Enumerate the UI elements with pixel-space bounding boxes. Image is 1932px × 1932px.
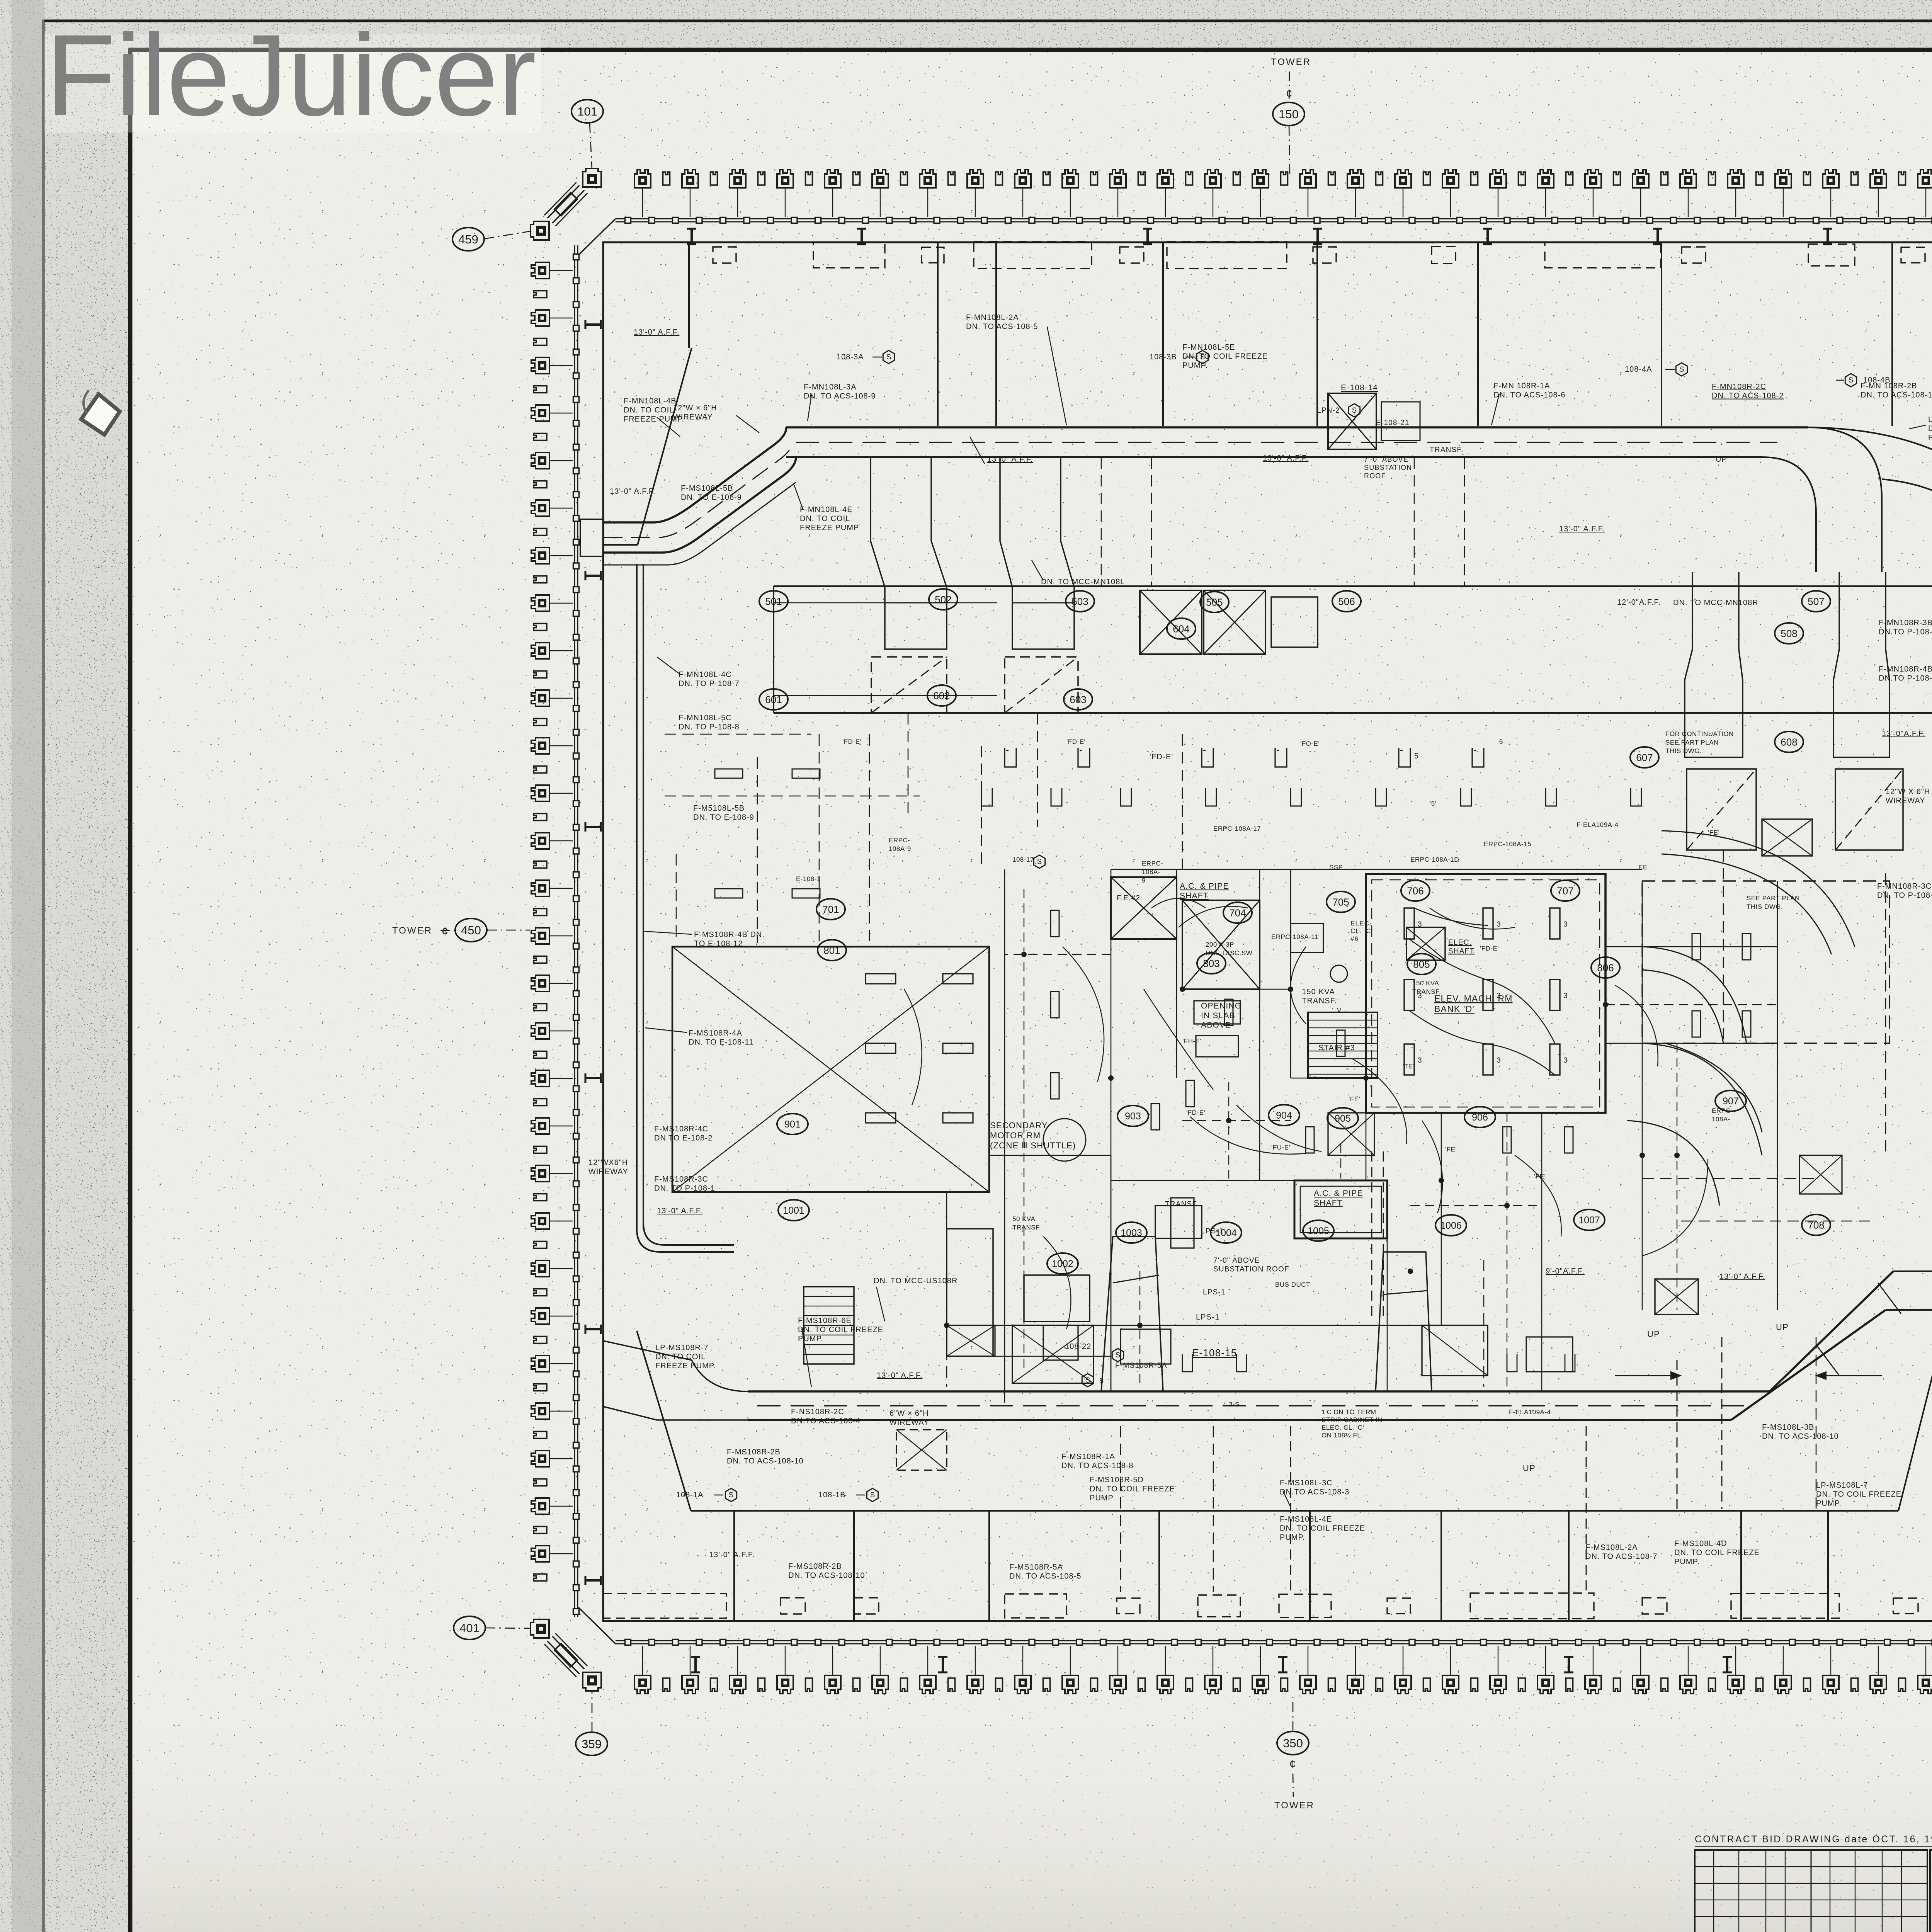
equipment ovals row 700 800 (816, 899, 845, 920)
svg-text:F-MN108R-4BDN.TO P-108-6: F-MN108R-4BDN.TO P-108-6 (1879, 665, 1932, 683)
svg-text:905: 905 (1335, 1113, 1351, 1124)
top fixture dashed row (713, 247, 736, 263)
grid bubble 401 (485, 1628, 530, 1628)
right zone content (1662, 831, 1855, 947)
corner chamfer top-left (552, 190, 584, 223)
funnel duct A below band (871, 457, 947, 649)
svg-text:1003: 1003 (1121, 1228, 1142, 1238)
bottom extra X boxes (896, 1430, 947, 1470)
svg-text:BUS DUCT: BUS DUCT (1275, 1281, 1310, 1288)
svg-text:E-108-14: E-108-14 (1341, 383, 1378, 392)
right core arcs (1642, 947, 1747, 1043)
svg-text:'5': '5' (1430, 800, 1436, 807)
core dashed conduit web (1024, 889, 1024, 1372)
svg-text:603: 603 (1070, 694, 1086, 705)
svg-text:13'-0" A.F.F.: 13'-0" A.F.F. (1559, 525, 1605, 533)
svg-text:'FE': 'FE' (1349, 1095, 1360, 1103)
secondary diagonal wireway line (603, 482, 796, 565)
callout F-MN108L-3A (808, 395, 811, 421)
svg-text:S: S (729, 1491, 734, 1499)
elevator room arcs (1409, 939, 1555, 1043)
svg-text:108-17: 108-17 (1012, 856, 1034, 863)
svg-text:13'-0" A.F.F.: 13'-0" A.F.F. (1719, 1272, 1765, 1281)
svg-text:ERPC-: ERPC- (1142, 860, 1163, 867)
funnel duct C right (1685, 572, 1743, 757)
svg-text:FileJuicer: FileJuicer (46, 10, 536, 140)
svg-text:13'-0"A.F.F.: 13'-0"A.F.F. (1882, 730, 1925, 738)
svg-text:ERPC-108A-17: ERPC-108A-17 (1213, 825, 1261, 832)
interior mechanical floor boundary wall (603, 242, 1932, 1621)
diagonal wall top-left (638, 348, 692, 545)
bottom band diagonal duct to right wall (1770, 1271, 1893, 1391)
core small fixture rects extra (1051, 910, 1059, 937)
svg-text:12"W X 6"HWIREWAY: 12"W X 6"HWIREWAY (1886, 787, 1930, 805)
svg-text:12"WX6"HWIREWAY: 12"WX6"HWIREWAY (588, 1158, 628, 1176)
svg-text:906: 906 (1472, 1112, 1488, 1123)
svg-text:13'-0" A.F.F.: 13'-0" A.F.F. (610, 487, 655, 496)
svg-text:ELEC. CL. 'C': ELEC. CL. 'C' (1321, 1424, 1364, 1431)
diagonal wall bottom-right (1898, 1313, 1932, 1511)
svg-text:13'-0" A.F.F.: 13'-0" A.F.F. (657, 1207, 702, 1215)
svg-text:'FO-E': 'FO-E' (1300, 740, 1320, 747)
svg-text:UP: UP (1647, 1329, 1660, 1339)
approved seal box (1930, 1850, 1932, 1932)
perimeter columns top row (634, 170, 1932, 188)
svg-text:TOWER: TOWER (1274, 1800, 1315, 1811)
svg-text:1002: 1002 (1052, 1259, 1073, 1269)
svg-text:3: 3 (1497, 920, 1501, 929)
equipment ovals row 500 (759, 591, 788, 612)
stair 3 hatched (1308, 1012, 1378, 1078)
svg-text:505: 505 (1206, 596, 1223, 608)
svg-text:'FD-E': 'FD-E' (1150, 753, 1173, 761)
corner column top-left B (531, 221, 549, 240)
secondary wall bottom band (691, 1510, 1898, 1512)
spandrel top with junction squares (616, 218, 1932, 219)
svg-text:1004: 1004 (1215, 1228, 1237, 1238)
svg-text:F-MN108L-5CDN. TO P-108-8: F-MN108L-5CDN. TO P-108-8 (679, 714, 740, 731)
svg-text:708: 708 (1808, 1219, 1824, 1231)
svg-text:SSP: SSP (1329, 864, 1343, 871)
svg-text:608: 608 (1781, 736, 1797, 748)
svg-text:200 A-3P: 200 A-3P (1206, 941, 1234, 948)
callout F-MN108L-4B (657, 417, 680, 437)
svg-text:502: 502 (935, 594, 951, 605)
svg-text:705: 705 (1332, 896, 1349, 908)
column spandrel connectors top (643, 188, 1926, 217)
callout F-MN108L-2A (1047, 327, 1066, 425)
svg-text:507: 507 (1808, 595, 1824, 607)
svg-text:13'-0" A.F.F.: 13'-0" A.F.F. (987, 455, 1033, 464)
FE shaft box with cross (1111, 877, 1177, 939)
svg-text:F-MN108L-4EDN. TO COILFREEZE P: F-MN108L-4EDN. TO COILFREEZE PUMP (800, 505, 859, 532)
svg-text:ERPC-108A-11: ERPC-108A-11 (1271, 933, 1318, 940)
svg-text:'FE': 'FE' (1534, 1173, 1546, 1180)
svg-text:3: 3 (1563, 992, 1568, 1000)
svg-text:TOWER: TOWER (1271, 57, 1311, 67)
svg-text:506: 506 (1338, 595, 1355, 607)
svg-text:9'-0"A.F.F.: 9'-0"A.F.F. (1546, 1267, 1585, 1276)
svg-text:TRANSF.: TRANSF. (1412, 988, 1441, 995)
grid bubble 459 (484, 231, 531, 239)
funnel duct B below band (1000, 457, 1074, 649)
svg-text:F.E.#2: F.E.#2 (1117, 894, 1140, 902)
svg-text:¢: ¢ (1286, 87, 1293, 100)
bottom zone dashes (946, 1260, 947, 1387)
svg-text:359: 359 (582, 1737, 602, 1751)
svg-text:DN. TO MCC-US108R: DN. TO MCC-US108R (874, 1277, 957, 1285)
svg-text:50 KVA: 50 KVA (1012, 1215, 1036, 1223)
svg-text:607: 607 (1636, 752, 1653, 763)
svg-text:5: 5 (1414, 752, 1419, 760)
core partition mesh verticals (1004, 869, 1005, 1403)
svg-text:706: 706 (1407, 885, 1423, 896)
svg-text:F-MS108R-5A: F-MS108R-5A (1115, 1362, 1167, 1370)
svg-text:TRANSF.: TRANSF. (1430, 446, 1464, 454)
svg-text:108A-9: 108A-9 (889, 845, 911, 852)
interior ledge top-left (603, 544, 638, 546)
callout 12"W × 6"H (736, 415, 759, 433)
spandrel diagonal top-left (595, 219, 616, 239)
svg-text:DN. TO MCC-MN108L: DN. TO MCC-MN108L (1041, 578, 1125, 586)
left edge dark strip (12, 0, 44, 1932)
tapered risers from bottom band (1101, 1236, 1163, 1391)
callout F-MN 108R-1A (1492, 394, 1499, 425)
callout DN. TO MCC-MN108L (1032, 560, 1043, 580)
bus duct dashed vertical (1371, 1151, 1372, 1321)
svg-text:ERPC-108A-15: ERPC-108A-15 (1484, 840, 1531, 848)
svg-text:THIS DWG.: THIS DWG. (1665, 747, 1702, 755)
grid bubble 101 with centerline (590, 123, 592, 169)
structural gridline ticks left (585, 320, 601, 329)
callout 13'-0" A.F.F. (970, 437, 985, 464)
svg-text:'FH-E': 'FH-E' (1182, 1037, 1201, 1045)
svg-text:508: 508 (1781, 628, 1797, 639)
svg-text:LPN-2: LPN-2 (1317, 406, 1340, 415)
revisions table (1695, 1850, 1927, 1932)
diagonal wall bottom-left (637, 1331, 691, 1511)
svg-text:704: 704 (1229, 907, 1246, 918)
spandrel diagonal bottom-left (578, 1607, 616, 1644)
svg-text:3: 3 (1563, 920, 1568, 929)
bottom wireway band horizontal (748, 1390, 1770, 1393)
svg-text:S: S (1849, 376, 1854, 384)
svg-text:13'-0" A.F.F.: 13'-0" A.F.F. (709, 1551, 755, 1559)
svg-text:3-S: 3-S (1229, 1401, 1240, 1408)
svg-text:LP-MN108R-7DN. TO COIL FREEZEP: LP-MN108R-7DN. TO COIL FREEZEPUMP (1928, 415, 1932, 442)
svg-text:CONTRACT BID DRAWING dat: CONTRACT BID DRAWING date OCT. 16, 1967 (1695, 1834, 1932, 1845)
svg-text:108-4A: 108-4A (1625, 365, 1652, 374)
svg-text:108-3B: 108-3B (1150, 353, 1177, 361)
main wireway band top horizontal (786, 426, 1808, 429)
svg-text:602: 602 (933, 690, 950, 701)
svg-text:S: S (886, 353, 891, 361)
ink blotch left margin (81, 394, 120, 435)
svg-text:EE: EE (1638, 864, 1648, 871)
upper middle fixture row 2 (981, 788, 992, 806)
callout F-MS108R-4A (645, 1028, 687, 1032)
callout F-MS108L-3C (1283, 1491, 1291, 1507)
upper middle dashed conduit runs (908, 713, 909, 819)
perimeter columns left column (531, 262, 549, 1581)
svg-text:501: 501 (765, 595, 782, 607)
svg-text:UP: UP (1776, 1322, 1789, 1332)
left vertical wireway 12x6 (636, 564, 638, 1229)
core partition mesh horizontals (1111, 869, 1642, 870)
svg-text:3: 3 (1418, 920, 1422, 929)
svg-text:S: S (1116, 1351, 1121, 1359)
svg-text:ELEC.SHAFT: ELEC.SHAFT (1448, 939, 1475, 955)
svg-text:FOR CONTINUATION: FOR CONTINUATION (1665, 730, 1734, 738)
svg-text:108-1A: 108-1A (676, 1491, 704, 1499)
svg-text:UP: UP (1716, 455, 1727, 464)
svg-text:108A-: 108A- (1142, 868, 1160, 876)
duct cross ties bottom diagonal (1816, 1345, 1839, 1376)
svg-text:S: S (1679, 366, 1684, 374)
svg-text:ERPC-: ERPC- (889, 837, 910, 844)
wireway band right elbow down (1808, 427, 1882, 572)
margin texture top (130, 0, 1932, 50)
svg-text:3: 3 (1497, 1056, 1501, 1065)
wireway elbow to right wall (1808, 427, 1932, 572)
svg-text:801: 801 (823, 944, 840, 956)
svg-text:'FE': 'FE' (1445, 1146, 1457, 1153)
svg-text:LPS-1: LPS-1 (1196, 1313, 1220, 1321)
svg-text:108A-: 108A- (1712, 1116, 1730, 1123)
svg-text:SEE PART PLAN: SEE PART PLAN (1747, 895, 1800, 902)
svg-text:3: 3 (1418, 1056, 1422, 1065)
svg-text:F-ELA109A-4: F-ELA109A-4 (1509, 1408, 1551, 1416)
elevator room fixtures (1404, 908, 1414, 939)
corner column top-left A (583, 168, 601, 187)
corner chamfer bottom-left (552, 1636, 584, 1669)
callout F-MN108L-4C (657, 657, 680, 674)
second elevator bank room right (1642, 881, 1889, 1043)
svg-text:13'-0" A.F.F.: 13'-0" A.F.F. (1263, 454, 1308, 463)
svg-text:1006: 1006 (1440, 1220, 1462, 1231)
margin texture left (0, 0, 130, 1932)
svg-text:904: 904 (1276, 1110, 1292, 1121)
core small circles (1043, 1119, 1086, 1161)
svg-text:108-22: 108-22 (1065, 1342, 1091, 1351)
upper band inner lines (774, 602, 997, 604)
callout F-MS108R-4B DN. (643, 931, 692, 934)
crosshatched AHU boxes mid band (1140, 590, 1202, 654)
structural gridline ticks top (687, 229, 696, 244)
svg-text:1001: 1001 (783, 1205, 804, 1216)
svg-text:'FU-E': 'FU-E' (1271, 1144, 1290, 1151)
svg-text:350: 350 (1283, 1736, 1303, 1750)
FD-E fixture row mid (1005, 748, 1016, 767)
funnel duct B dashed fixture box (1005, 657, 1078, 713)
svg-text:13'-0" A.F.F.: 13'-0" A.F.F. (634, 328, 679, 337)
svg-text:101: 101 (577, 105, 597, 118)
secondary motor room (672, 947, 989, 1192)
callout LP-MN108R-7 (1909, 425, 1926, 429)
svg-text:'FD-E': 'FD-E' (842, 738, 861, 745)
bottom gradient shading (0, 0, 0, 0)
filejuicer watermark background (44, 34, 541, 133)
wireway elbow to left wall (603, 427, 786, 522)
spandrel left with junction squares (574, 245, 575, 1617)
svg-text:F-MS108R-4CDN TO E-108-2: F-MS108R-4CDN TO E-108-2 (654, 1125, 713, 1143)
svg-text:TRANSF.: TRANSF. (1165, 1200, 1199, 1208)
corner column bottom-left A (583, 1672, 601, 1691)
svg-text:S: S (1352, 406, 1357, 415)
svg-text:TRANSF.: TRANSF. (1012, 1224, 1041, 1231)
core scattered conduit arcs (1144, 989, 1213, 1090)
core junction dots (1021, 952, 1027, 957)
svg-text:ERPC-108A-1D: ERPC-108A-1D (1410, 856, 1459, 863)
bottom fixture dashed row (603, 1594, 726, 1618)
callout DN. TO MCC-US108R (876, 1287, 885, 1321)
svg-text:108-3A: 108-3A (837, 353, 864, 361)
svg-text:¢: ¢ (1289, 1758, 1296, 1770)
svg-text:STRIP CABINET IN: STRIP CABINET IN (1321, 1416, 1383, 1423)
svg-text:F-ELA109A-4: F-ELA109A-4 (1577, 821, 1619, 828)
callout F-MS108R-6E (802, 1328, 811, 1387)
stair hatch bottom-left of plan (804, 1287, 854, 1364)
bottom band partition walls (733, 1511, 735, 1621)
svg-text:707: 707 (1557, 885, 1573, 896)
svg-text:604: 604 (1173, 623, 1189, 634)
svg-text:'FD-E': 'FD-E' (1480, 945, 1499, 952)
svg-text:DN. TO MCC-MN108R: DN. TO MCC-MN108R (1673, 599, 1759, 607)
svg-text:F-MN108R-3CDN. TO P-108-3: F-MN108R-3CDN. TO P-108-3 (1877, 882, 1932, 900)
svg-text:ON 108½ FL.: ON 108½ FL. (1321, 1432, 1363, 1439)
svg-text:601: 601 (765, 694, 782, 705)
svg-text:901: 901 (784, 1119, 801, 1130)
funnel duct A dashed fixture box (871, 657, 947, 713)
svg-text:6"W × 6"HWIREWAY: 6"W × 6"HWIREWAY (889, 1409, 929, 1427)
motor room fixtures (866, 974, 896, 984)
svg-text:UP: UP (1523, 1463, 1536, 1473)
bottom wireway elbow to left wall (603, 1341, 748, 1391)
svg-text:806: 806 (1597, 962, 1614, 973)
svg-text:701: 701 (822, 903, 839, 915)
svg-text:¢: ¢ (442, 925, 449, 938)
wall junction box for wireway (580, 519, 604, 556)
svg-text:S: S (870, 1491, 875, 1499)
left zone dashed runs (665, 734, 811, 735)
svg-text:TOWER: TOWER (392, 925, 432, 936)
spandrel bottom with junction squares (616, 1640, 1932, 1641)
bottom middle transformer yard (1012, 1325, 1094, 1383)
right edge dark shading (0, 0, 0, 0)
svg-text:F-MS108R-3CDN. TO P-108-1: F-MS108R-3CDN. TO P-108-1 (654, 1175, 715, 1193)
column spandrel connectors left (550, 270, 573, 1554)
structural gridline ticks bottom (691, 1657, 700, 1672)
svg-text:THIS DWG.: THIS DWG. (1747, 903, 1783, 910)
svg-text:450: 450 (461, 923, 481, 937)
svg-text:F-MN108L-4CDN. TO P-108-7: F-MN108L-4CDN. TO P-108-7 (679, 670, 740, 688)
core extra arcs (1063, 947, 1104, 1082)
core X-crossed small shafts (1328, 1113, 1374, 1155)
top band partition walls (688, 242, 690, 348)
svg-text:E-108-15: E-108-15 (1192, 1347, 1237, 1359)
callout F-MN108L-4E (794, 485, 803, 509)
svg-text:1'C DN TO TERM: 1'C DN TO TERM (1321, 1408, 1376, 1416)
grid bubble 350 tower centerline bottom (1293, 1697, 1294, 1731)
svg-text:150 KVATRANSF.: 150 KVATRANSF. (1302, 988, 1337, 1005)
svg-text:S: S (1037, 858, 1042, 866)
svg-text:'FD-E': 'FD-E' (1066, 738, 1085, 745)
svg-text:SEE PART PLAN: SEE PART PLAN (1665, 739, 1719, 746)
svg-text:5: 5 (1499, 738, 1503, 745)
svg-text:5: 5 (1099, 1377, 1104, 1385)
svg-text:F-MS108L-5BDN. TO E-108-9: F-MS108L-5BDN. TO E-108-9 (681, 484, 742, 502)
left zone fixtures (715, 769, 743, 778)
svg-text:1005: 1005 (1308, 1226, 1329, 1236)
AC pipe shaft bottom (1294, 1180, 1387, 1238)
svg-text:F-MN108R-3BDN.TO P-108-5: F-MN108R-3BDN.TO P-108-5 (1879, 619, 1932, 636)
svg-text:S: S (1085, 1376, 1090, 1384)
up arrows bottom band (1615, 1375, 1681, 1376)
svg-text:E-108-1: E-108-1 (796, 875, 821, 883)
svg-text:805: 805 (1413, 958, 1430, 970)
svg-text:3: 3 (1563, 1056, 1568, 1065)
equipment ovals row 900 1000 (777, 1114, 808, 1134)
dashed vertical runs bottom (1677, 1360, 1678, 1509)
svg-text:9: 9 (1142, 877, 1146, 884)
transformer LPS cluster lower (1155, 1206, 1202, 1238)
svg-text:803: 803 (1203, 957, 1219, 969)
svg-text:108-1B: 108-1B (818, 1491, 846, 1499)
svg-text:13'-0" A.F.F.: 13'-0" A.F.F. (877, 1371, 922, 1380)
svg-text:503: 503 (1071, 595, 1088, 607)
svg-text:E-108-21: E-108-21 (1376, 419, 1410, 427)
elevator machine room bank D (1366, 874, 1605, 1113)
lower left equipment boxes (947, 1229, 993, 1356)
upper equipment band outline (774, 585, 1932, 587)
svg-text:459: 459 (458, 233, 478, 246)
svg-text:V: V (1337, 1007, 1342, 1014)
equipment ovals row 600 (759, 689, 788, 710)
substation box top middle (1328, 393, 1376, 449)
svg-text:401: 401 (459, 1621, 480, 1635)
svg-text:'FD-E': 'FD-E' (1186, 1109, 1205, 1116)
svg-text:12'-0"A.F.F.: 12'-0"A.F.F. (1617, 598, 1661, 607)
svg-text:150 KVA: 150 KVA (1412, 980, 1439, 987)
svg-text:'TE': 'TE' (1403, 1063, 1414, 1070)
wireway dashed centerlines top band (796, 442, 1777, 443)
transformer cluster (1182, 900, 1260, 989)
grid bubble 359 with centerline (592, 1692, 593, 1732)
svg-text:903: 903 (1125, 1111, 1141, 1122)
svg-text:150: 150 (1279, 107, 1299, 121)
column spandrel connectors bottom (643, 1646, 1926, 1675)
svg-text:907: 907 (1723, 1096, 1739, 1107)
funnel duct D right (1833, 572, 1889, 757)
svg-text:LPS-1: LPS-1 (1203, 1288, 1226, 1296)
perimeter columns bottom row (634, 1675, 1932, 1694)
elec closet boxes (1291, 923, 1323, 952)
svg-text:1007: 1007 (1578, 1215, 1600, 1226)
corner column bottom-left B (531, 1619, 549, 1638)
